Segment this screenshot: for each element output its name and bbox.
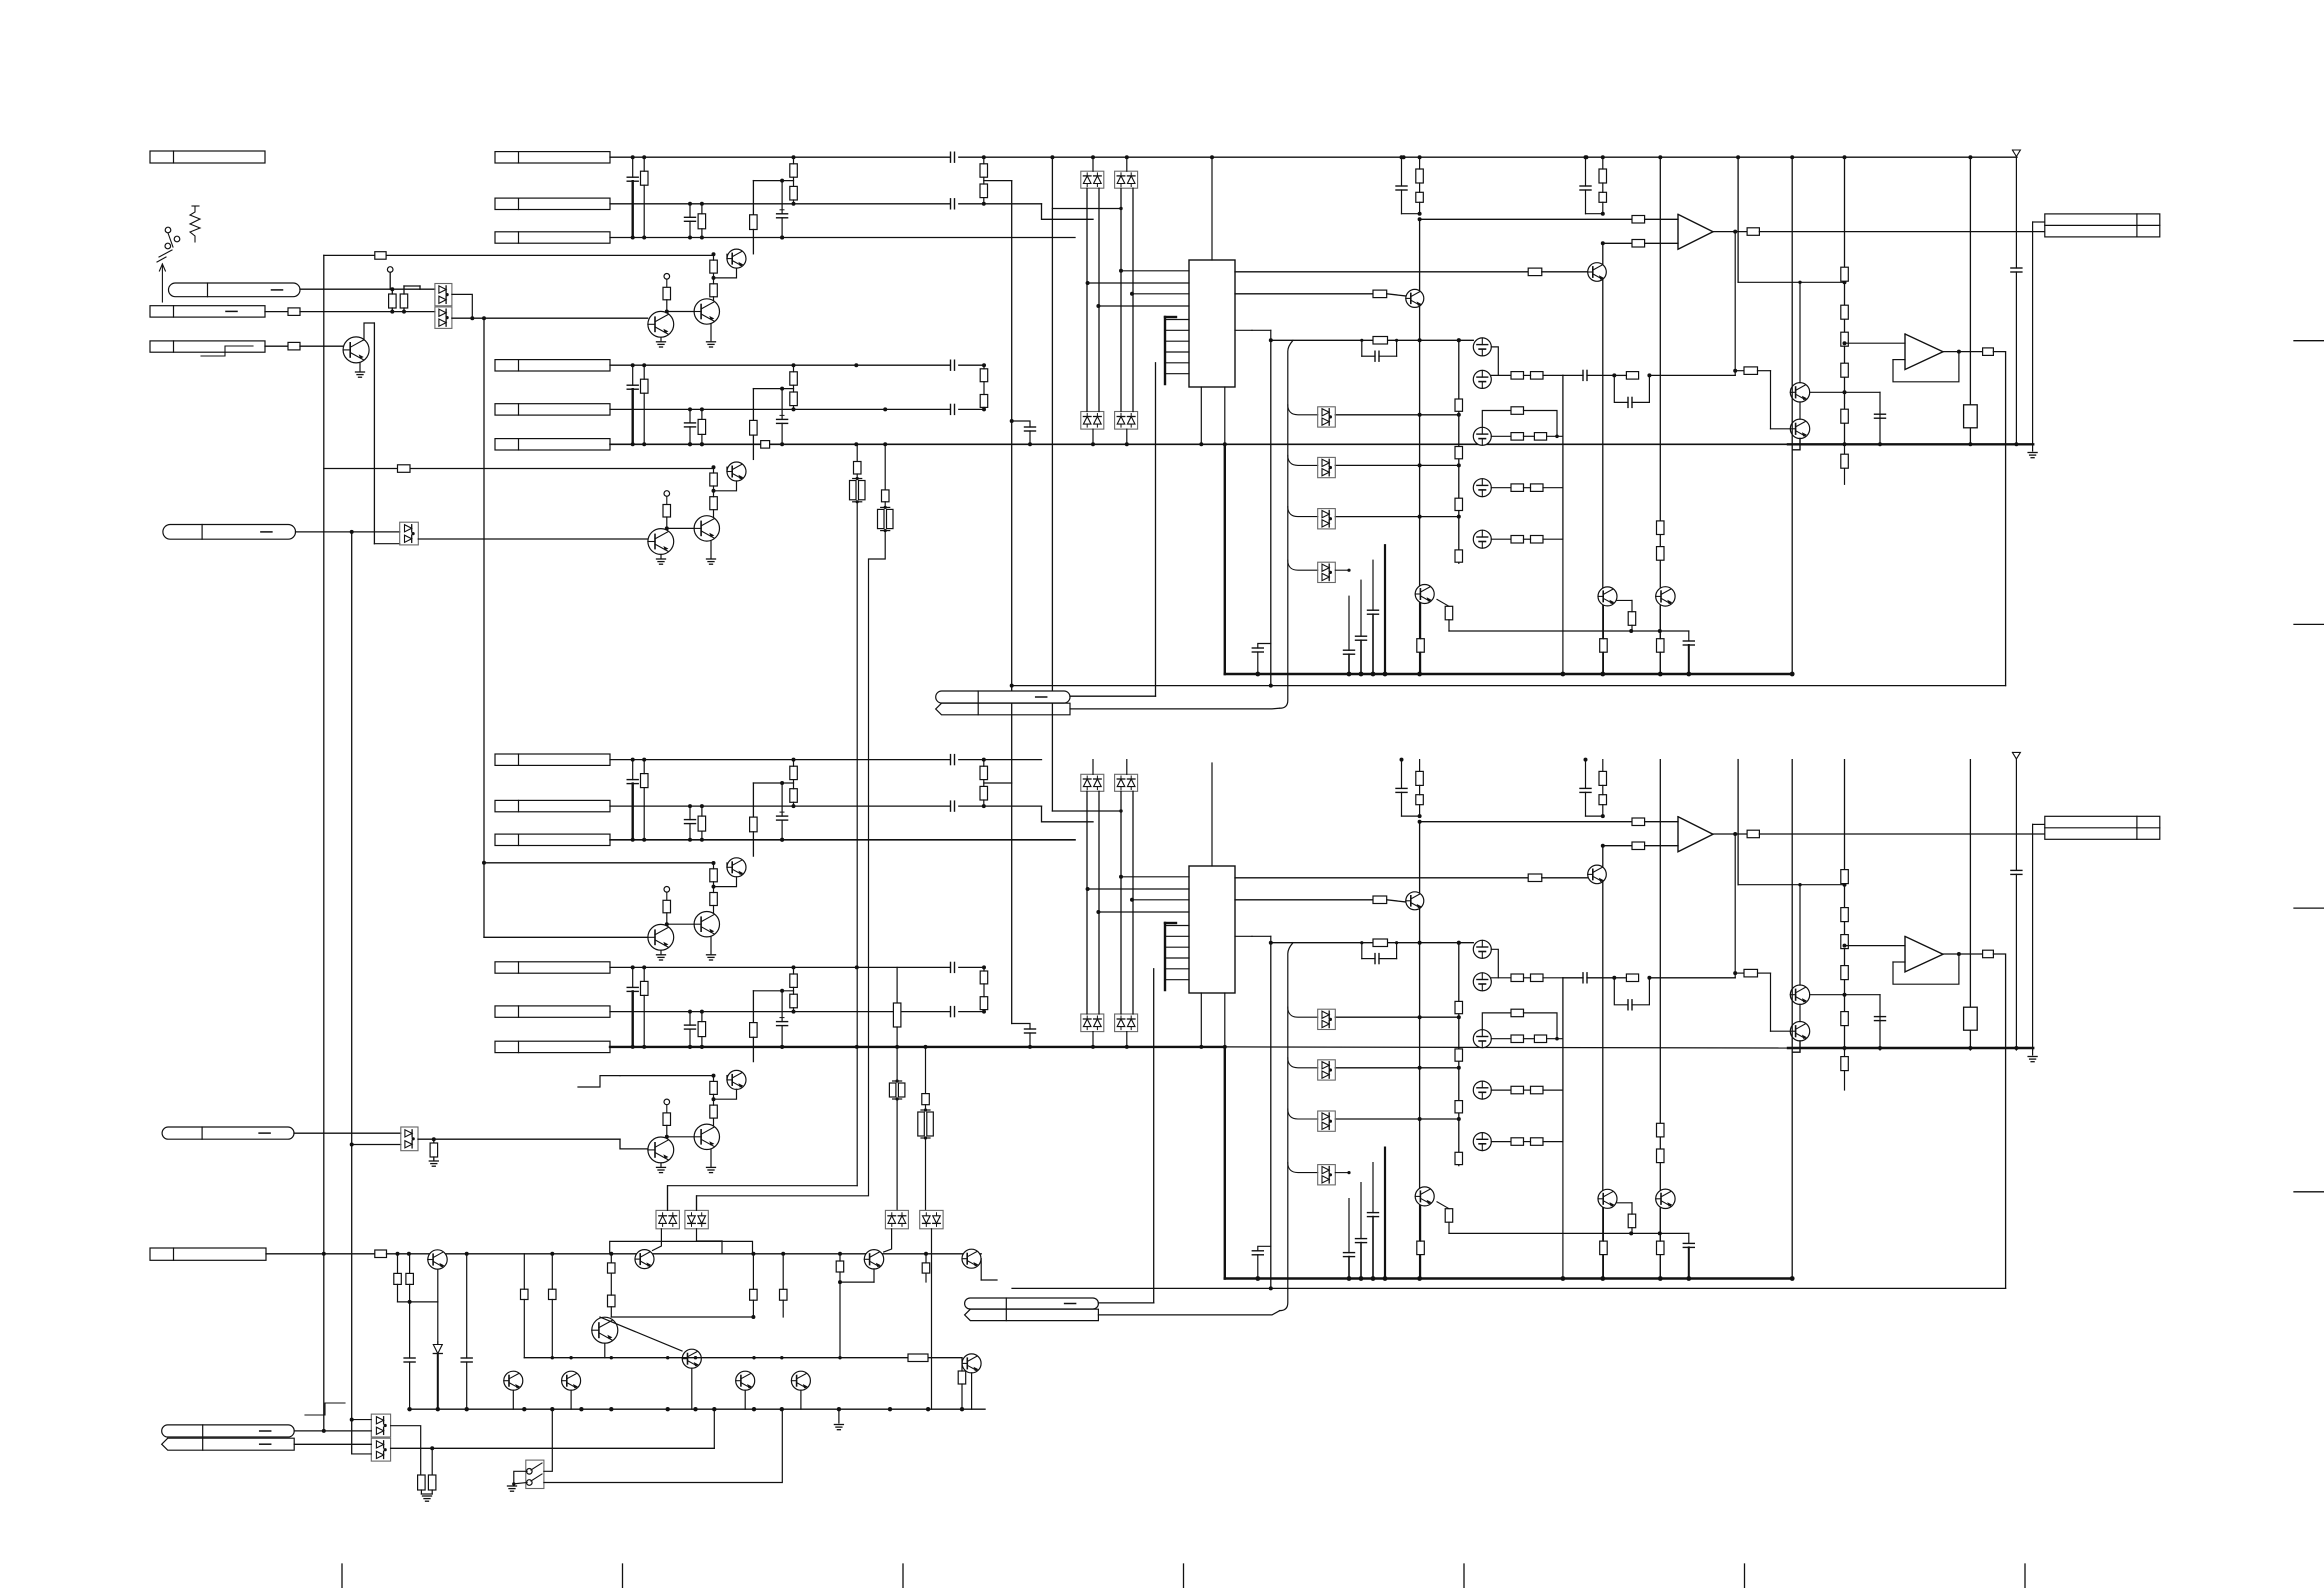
diode module D1a [435,284,452,306]
capacitor fb top [1627,397,1629,407]
connector pill mid top b [936,703,1070,715]
IC U2 drive bottom bus pins [1164,923,1166,990]
wire trio4 row2 [610,1011,950,1013]
input RC network top x1602 [1585,157,1587,186]
wire vertical x1660 top [1659,157,1661,674]
resistor vas bottom [1373,939,1388,947]
wire pill to IC U2 [1098,1302,1153,1304]
diode module D2 [400,522,419,545]
diode module chain 2 top [1318,457,1336,477]
wire gate row bottom [1335,1016,1459,1018]
vertical v1 x857 [856,444,858,461]
wire vas rail bottom [1271,942,1474,944]
resistor bottom [1445,1209,1453,1223]
resistor M3a bottom [1511,1035,1524,1043]
resistor x1660a top [1657,521,1665,535]
transistor QB mid-right [694,516,719,541]
transistor QA2 upper [727,858,746,877]
wire D5b out [391,1447,715,1449]
wire to relay diode M1 [668,1186,858,1211]
resistor emitter top [1417,639,1425,653]
ground QB b [707,558,716,560]
wire trio3 row2 [610,805,950,807]
connector CN2 [150,306,265,317]
diode module chain 3 bottom [1318,1111,1336,1131]
wire trio2 row2 [610,408,950,410]
logic level symbol 2 [305,1403,345,1415]
resistor bottom [1599,771,1607,785]
resistor pair v4 [921,1109,930,1111]
wire base QB2 [713,1075,715,1077]
resistor ladder top [1841,305,1849,319]
transistor QA mid-right [694,299,719,324]
resistor v4 [922,1094,930,1105]
resistor gate top [1455,447,1463,459]
transistor QB2 upper [727,1070,746,1089]
op-amp output stage bottom [1905,936,1943,972]
gate bus x1459 bottom [1458,943,1460,1166]
resistor R_b [400,294,408,308]
resistor gate top [1455,498,1463,510]
wire vas rail top [1271,339,1474,341]
transistor Qm4 [791,1371,810,1390]
resistor ladder bottom [1841,1012,1849,1026]
relay diode module M3 [885,1210,908,1228]
wire to relay diode M2 [697,531,886,1211]
resistor gate bottom [1455,1152,1463,1164]
capacitor Cc2 [461,1357,472,1359]
wire gate row top [1335,414,1459,416]
wire op-amp +in top [1420,218,1632,220]
resistor bottom [1628,1214,1636,1228]
resistor Rm10 [958,1371,966,1384]
cap columns bottom [1348,1199,1350,1253]
capacitor bottom [2011,869,2022,871]
resistor QB2 r2 [710,1105,718,1118]
wire D5a out [391,1426,421,1475]
ground QB2 b [707,1166,716,1168]
resistor QA r2 [710,284,718,297]
wire x1880 top [1879,392,1881,444]
vertical x1012 [1011,181,1013,1024]
resistor QA r1 [710,260,718,273]
diode pack bottom S3 [1081,1014,1104,1032]
resistor R3 [288,342,300,350]
wire trio1 row3 [610,237,1075,239]
resistor ladder bottom [1841,870,1849,884]
wire pillA to D5 [294,1430,371,1432]
resistor step CN8 [750,1023,758,1038]
resistor emitter bottom [1657,1241,1665,1255]
diode module chain top [1280,340,1293,708]
MOSFET M5 bottom [1473,1133,1491,1151]
resistor pair v1 [853,478,862,480]
resistor pair v3 [893,1080,902,1082]
transistor Qc2 [635,1250,654,1269]
feedback path bottom [1734,834,1736,978]
resistor op+ bottom [1632,818,1645,826]
resistor op- top [1632,240,1645,248]
IC U1 bottom pin a [1200,387,1202,444]
resistor QA2 r3 [663,900,671,913]
connector pill mid bottom a [965,1298,1099,1309]
resistor Rm1 [521,1289,529,1299]
wire to out op-amp top [1845,342,1906,344]
resistor Rc3 [406,1273,414,1284]
wire trio3 row1 [610,759,950,761]
wire M1 stub [667,1186,669,1211]
wire D3 to QB2 mid-left [620,1139,648,1149]
wire trio4 row3 : lower mid rail [610,1046,1225,1048]
wire y282 top [1738,281,1844,283]
transistor Qm6 [962,1354,981,1373]
wire Qc3 emitter [873,1269,875,1282]
gate bus x1459 top [1458,340,1460,563]
resistor branch bottom [1744,969,1758,977]
wire trio4 row1 [610,966,950,968]
wire trio2 row3 : main mid rail [610,443,1788,445]
feedback loop bottom [1893,954,1959,984]
transistor Qc1 [428,1250,447,1269]
IC U2 drive bottom [1189,866,1235,993]
IC U1 drive top bus pins [1164,317,1166,384]
base rail top [1449,630,1689,632]
resistor M3b bottom [1534,1035,1546,1043]
wire Qp2 base bottom [1771,1030,1791,1032]
wire switch to bus [544,1409,552,1471]
resistor Rg1 [418,1475,426,1490]
resistor out bottom [1747,830,1759,838]
resistor bottom [1416,771,1424,785]
wire pillB to D5 [294,1443,371,1445]
resistor op+ top [1632,216,1645,224]
wire Qp2 base top [1771,428,1791,430]
wire Qp1 base bottom [1810,994,1880,996]
wire P1 to diode module D1 [300,288,435,290]
MOSFET M4 top [1473,479,1491,497]
resistor QB r3 [663,505,671,518]
connector CN4 [150,1248,266,1260]
wire M2 stub [696,1196,698,1211]
capacitor top c1689 [1683,640,1694,642]
transistor QB upper [727,462,746,481]
ground QB a [657,558,666,560]
wire IC stub to vas [1252,329,1271,331]
wire CN2 [265,311,288,313]
ground [356,371,365,373]
wire gate row top [1335,516,1459,518]
resistor M2b bottom [1531,974,1544,982]
ground slash marks [165,243,171,249]
wire to Qm5 base [600,1317,682,1351]
resistor v3 [893,1003,901,1027]
wire protection rail [387,1253,982,1255]
diode column wires bottom [1086,791,1088,1014]
resistor ladder bottom [1841,1057,1849,1071]
logic level symbol 3 [578,1076,620,1087]
relay diode module M1 [656,1210,679,1228]
resistor M2a bottom [1511,974,1524,982]
IC U2 bottom pin a [1200,993,1202,1047]
wire x2033 top [2032,222,2034,444]
resistor Rm8 [836,1261,844,1272]
resistor R_a [389,294,397,308]
transistor Qp1 top [1790,383,1809,402]
resistor ladder top [1841,454,1849,468]
wire P3 to diode module D3 [294,1132,401,1134]
electrolytic cap CN6 [781,389,783,420]
wire gate row bottom [1335,1118,1459,1120]
wire op-amp +in bottom [1420,821,1632,823]
cap branch x1030 bottom [1012,1024,1030,1030]
resistor pair v2 [881,506,890,508]
ground QA2 b [707,954,716,956]
wire step CN7 [753,782,793,784]
resistor emitter top [1657,639,1665,653]
MOSFET M3 bottom [1473,1030,1491,1048]
resistor step CN7 [750,817,758,832]
wire out2 down top [1993,352,2005,686]
transistor Q1 [343,337,369,363]
resistor x1660b bottom [1657,1149,1665,1163]
resistor M2a top [1511,372,1524,380]
resistor top [1599,169,1607,183]
electrolytic cap CN8 [781,991,783,1022]
IC U2 bottom pin b [1224,993,1226,1047]
cap branch x1030 top [1012,421,1030,427]
capacitor top [2011,267,2022,269]
wire x1970 top [1969,157,1971,444]
resistor M3 loop bottom [1511,1009,1524,1017]
input RC network bottom x1602 [1585,760,1587,789]
transistor Qe2 bottom [1598,1189,1617,1208]
transistor Qm1 [504,1371,523,1390]
resistor QB2 r1 [710,1081,718,1094]
wire x1880 bottom [1879,995,1881,1050]
diode module D3 [401,1127,418,1151]
connector P5b (pill) [162,1438,295,1450]
transistor Qm2 [562,1371,581,1390]
wire base QB [713,466,715,468]
resistor Rm5 [750,1289,758,1300]
open terminal QA2 [664,887,670,893]
long thin rail top [1012,685,2006,687]
open terminal QB [664,491,670,497]
wire base QA [713,253,715,255]
resistor ladder x1845 top [1844,157,1846,444]
transistor Qm0 (large) [592,1317,618,1343]
transistor Qe3 top [1656,587,1675,606]
connector pill mid bottom b [965,1309,1099,1320]
wire D3 out [418,1138,620,1140]
resistor gate top [1455,550,1463,562]
resistor R71 [1528,268,1542,276]
diode pack bottom S4 [1115,1014,1138,1032]
wire vertical x1419 top [1419,219,1421,674]
transistor QB mid-left [648,529,674,555]
resistor QB r1 [710,473,718,486]
wire Qp1 base top [1810,391,1880,393]
wire vertical x484 [483,318,485,937]
resistor top [1416,192,1424,202]
power switch S1 icon [165,227,171,233]
resistor R_c1 [375,1250,387,1258]
wire pill b to chain bus [1070,707,1280,710]
IC U1 bottom pin b [1224,387,1226,444]
transistor Qp2 bottom [1790,1021,1809,1040]
input RC network top x1419 [1401,157,1403,186]
diode module chain 1 top [1318,407,1336,427]
resistor M3b top [1534,433,1546,441]
resistor R475 [398,465,411,473]
wire gate row bottom [1335,1067,1459,1069]
arrow up symbol [161,264,163,302]
divider after cap trio1 [980,164,988,177]
wire trio2 row1 [610,364,950,366]
resistor top [1416,169,1424,183]
resistor emitter top [1600,639,1608,653]
MOSFET M4 bottom [1473,1081,1491,1099]
wire op-amp -in bottom [1603,845,1632,847]
vertical x324 [323,255,325,1431]
resistor v1 [854,462,862,475]
diode module chain 3 top [1318,509,1336,529]
wire divider mid to x1012 [984,180,1012,182]
transistor Qc3 [864,1250,883,1269]
resistor bottom [1599,795,1607,805]
vertical v3 x897 [896,967,898,1003]
resistor ladder top [1841,409,1849,423]
transistor QA upper [727,249,746,268]
diode module D1b [435,307,452,329]
wire x1738 top [1737,157,1739,282]
vertical v2 x885 [884,444,886,490]
wire up to bus [713,1409,715,1448]
wire branch top [1735,370,1744,372]
connector box CN5 row2 [495,198,610,209]
wire step CN5 [753,180,793,182]
wire trio1 row1 (long top rail) [610,156,950,158]
resistor inline R44 [761,441,770,449]
resistor (zigzag) icon [190,206,200,242]
wire bypass loop [610,1241,753,1253]
connector pill mid top a [936,691,1070,703]
wire step CN8 [753,990,793,992]
open terminal [387,267,393,273]
wire pill b to chain bus 2 [1098,1311,1279,1315]
resistor x1660b top [1657,547,1665,561]
divider after cap trio2 [980,369,988,382]
open terminal QA [664,274,670,280]
resistor out2 top [1983,348,1994,356]
registration ticks right [2294,340,2324,342]
connector box CN7 row2 [495,800,610,811]
ground QB2 a [657,1166,666,1168]
resistor step CN5 [750,215,758,230]
resistor branch top [1744,367,1758,375]
wire base QA2 [713,862,715,864]
wire CN3 [265,345,288,347]
transistor Qd1 bottom [1588,865,1607,884]
resistor Rm4 [608,1295,616,1307]
diode module D5a [371,1414,390,1437]
wire M3 to Qc3 [884,1229,892,1252]
wire vertical x1419 bottom [1419,822,1421,1279]
diode pack bottom S2 [1115,774,1138,791]
resistor v2 [882,490,890,502]
connector box output bottom [2045,816,2160,839]
cap columns top [1348,596,1350,650]
resistor step CN6 [750,420,758,435]
resistor M3 loop top [1511,407,1524,415]
diode pack top S4 [1115,412,1138,430]
resistor R71b [1528,874,1542,882]
resistor QA2 r2 [710,893,718,906]
wire y863 [484,862,714,864]
resistor x1660a bottom [1657,1123,1665,1137]
diode pack top S3 [1081,412,1104,430]
MOSFET M1 top [1473,338,1491,356]
op-amp output stage top [1905,334,1943,370]
resistor emitter bottom [1417,1241,1425,1255]
diode module chain bottom [1280,943,1293,1311]
feedback path top [1734,232,1736,376]
diode column wires top [1086,188,1088,411]
resistor R255 [375,252,386,260]
long thin rail bottom [1012,1287,2006,1289]
wire CN4 row [266,1253,375,1255]
connector label box CN? top-left [150,151,265,163]
transistor Qd2 top [1406,289,1424,307]
IC U1 right wires [1235,271,1528,273]
vertical v4 x925 [925,1047,927,1094]
relay diode module M2 [685,1210,708,1228]
resistor divider CN5 [790,164,798,177]
wire x1155 to pill [1155,363,1157,696]
resistor ladder bottom [1841,935,1849,949]
base rail mid [524,1357,962,1359]
ground Rg [423,1495,432,1497]
op-amp Ubottoma [1678,817,1713,852]
MOSFET M2 top [1473,370,1491,388]
transistor Qc4 [962,1249,981,1268]
wire M4 down [931,1229,933,1409]
resistor Rm2 [549,1289,557,1299]
wire x1792 bottom [1791,760,1793,1279]
ground right [2028,452,2037,454]
transistor Qm5 [682,1349,701,1368]
transistor Qe3 bottom [1656,1189,1675,1208]
resistor bottom [1416,795,1424,805]
wire M3 loop bottom [1482,1013,1511,1030]
resistor ladder top [1841,267,1849,281]
resistor R72 [1373,290,1387,298]
bold ground bus bottom [1225,1277,1792,1280]
vertical x1052 top [1051,157,1053,811]
connector box CN6 row2 [495,404,610,415]
wire y475 [324,468,714,470]
wire x2033 bottom [2032,824,2034,1050]
wire vertical x1603 bottom [1602,846,1604,1279]
wire step CN6 [753,388,793,390]
resistor top [1445,606,1453,620]
wire node mute1 [472,317,647,319]
resistor ladder bottom [1841,966,1849,980]
RC network CN5 [627,176,638,178]
RC network CN7 [627,779,638,781]
transistor QB2 mid-left [648,1137,674,1163]
wire vertical x1603 top [1602,243,1604,674]
